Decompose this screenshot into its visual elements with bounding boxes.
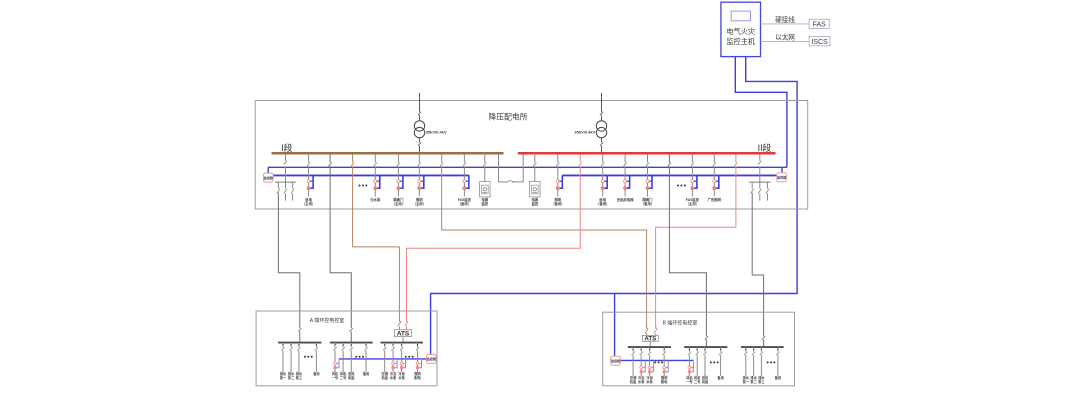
wire gray to B-room bus3 xyxy=(752,193,765,348)
wire red II段 to ATS-B xyxy=(654,155,738,336)
svg-text:泵三: 泵三 xyxy=(296,375,303,380)
svg-text:排水: 排水 xyxy=(296,371,303,376)
svg-text:FAS: FAS xyxy=(813,22,827,29)
svg-text:照明: 照明 xyxy=(414,371,421,376)
feeder FAS监控(主用) xyxy=(686,155,700,207)
svg-text:（主用）: （主用） xyxy=(686,201,699,206)
svg-text:泵三: 泵三 xyxy=(758,379,765,384)
svg-text:一号: 一号 xyxy=(332,375,339,380)
svg-text:机组: 机组 xyxy=(701,379,709,384)
svg-text:监控器: 监控器 xyxy=(264,175,274,180)
wire blue sensor loop right xyxy=(562,174,777,176)
svg-text:A 端环控电控室: A 端环控电控室 xyxy=(310,317,344,324)
bus A1 xyxy=(278,342,321,344)
feeder A1-3 排水 xyxy=(296,343,303,380)
bus A2 xyxy=(330,342,373,344)
svg-text:配电: 配电 xyxy=(414,375,421,380)
svg-text:35kV/0.4kV: 35kV/0.4kV xyxy=(426,129,447,134)
svg-text:备用: 备用 xyxy=(362,371,369,376)
wire host to substation sensor loop xyxy=(431,57,797,357)
svg-text:二号: 二号 xyxy=(340,375,347,380)
feeder B1-3 冷却 xyxy=(645,347,653,384)
svg-text:硬接线: 硬接线 xyxy=(775,15,795,24)
svg-text:电源: 电源 xyxy=(531,197,538,202)
bus A3 xyxy=(381,342,423,344)
dots A3 xyxy=(405,356,414,358)
svg-text:污水泵: 污水泵 xyxy=(370,197,381,202)
svg-text:无机房电梯: 无机房电梯 xyxy=(617,197,634,202)
svg-text:（备用）: （备用） xyxy=(641,201,654,206)
dots A1 xyxy=(304,356,313,358)
svg-text:冷冻: 冷冻 xyxy=(390,371,397,376)
svg-text:泵一: 泵一 xyxy=(280,375,287,380)
dots B1 xyxy=(654,361,663,363)
svg-text:备用: 备用 xyxy=(774,375,781,380)
svg-text:风机: 风机 xyxy=(694,375,701,380)
wire 以太网 to ISCS xyxy=(761,33,810,42)
svg-text:给电: 给电 xyxy=(599,197,606,202)
box ISCS xyxy=(809,37,830,46)
svg-text:（备用）: （备用） xyxy=(458,201,471,206)
wire blue sensor loop left xyxy=(273,174,469,176)
feeder A3-3 冷却 xyxy=(397,343,405,380)
bus I段 (brown) xyxy=(272,142,504,153)
room box B 端环控电控室 xyxy=(603,312,795,386)
svg-text:备用: 备用 xyxy=(716,375,723,380)
power monitor meter right 电源监控 xyxy=(530,152,541,206)
bus B3 xyxy=(741,346,784,348)
svg-text:隔离门: 隔离门 xyxy=(393,197,404,202)
fire monitor host U1 电气火灾监控主机 xyxy=(721,2,761,56)
power monitor meter left 电源监控 xyxy=(480,152,491,206)
svg-text:送风: 送风 xyxy=(347,371,355,376)
sensor module left 监控器 xyxy=(264,173,274,182)
svg-text:（主用）: （主用） xyxy=(392,201,405,206)
svg-text:（主用）: （主用） xyxy=(413,201,426,206)
svg-text:水泵: 水泵 xyxy=(637,379,645,384)
svg-text:一号: 一号 xyxy=(686,379,693,384)
svg-text:照明: 照明 xyxy=(554,197,561,202)
svg-text:35kV/0.4kV: 35kV/0.4kV xyxy=(574,129,595,134)
svg-text:B 端环控电控室: B 端环控电控室 xyxy=(663,319,698,326)
feeder 隔离门(主用) xyxy=(392,155,405,207)
feeder A3-2 冷冻 xyxy=(389,343,397,380)
bus B1 xyxy=(628,346,671,348)
svg-text:排水: 排水 xyxy=(743,375,750,380)
svg-text:风机: 风机 xyxy=(686,375,693,380)
svg-text:监控: 监控 xyxy=(481,201,488,206)
svg-text:空调: 空调 xyxy=(630,375,637,380)
sensor module right 监控器 xyxy=(777,173,787,182)
feeder B1-2 冷冻 xyxy=(637,347,645,384)
dots B2 xyxy=(710,361,719,363)
transformer T2 35kV/0.4kV xyxy=(574,93,606,152)
feeder I-1 three-phase outgoing xyxy=(275,155,296,201)
svg-text:排水: 排水 xyxy=(280,371,287,376)
svg-text:风机: 风机 xyxy=(332,371,339,376)
feeder 污水泵 xyxy=(370,155,381,203)
feeder A2-1 风机 xyxy=(332,343,339,380)
svg-text:I段: I段 xyxy=(281,142,292,153)
feeder 无机房电梯 xyxy=(617,155,634,203)
feeder II three-phase outgoing xyxy=(749,155,771,201)
feeder A1-2 排水 xyxy=(288,343,295,380)
feeder A1-1 排水 xyxy=(280,343,287,380)
svg-text:空调: 空调 xyxy=(382,371,389,376)
feeder 广告照明 xyxy=(708,155,722,203)
dots I段 xyxy=(359,185,368,187)
svg-text:泵二: 泵二 xyxy=(750,379,757,384)
feeder A2-2 风机 xyxy=(340,343,347,380)
svg-text:排水: 排水 xyxy=(288,371,295,376)
svg-text:给电: 给电 xyxy=(305,197,312,202)
feeder B2-2 风机 xyxy=(694,347,701,384)
svg-text:机组: 机组 xyxy=(629,379,637,384)
svg-text:冷却: 冷却 xyxy=(398,371,404,376)
svg-text:监控: 监控 xyxy=(531,201,538,206)
sensor module A 监控器 xyxy=(427,354,437,363)
bus tie switch xyxy=(499,155,524,183)
feeder 照明(备用) xyxy=(551,155,564,207)
feeder FAS监控(备用) xyxy=(458,155,472,207)
feeder A2-3 送风 xyxy=(347,343,355,380)
feeder A3-1 空调 xyxy=(381,343,389,380)
svg-text:备用: 备用 xyxy=(312,371,319,376)
substation box 降压配电所 xyxy=(255,101,808,210)
svg-text:ISCS: ISCS xyxy=(811,39,828,46)
svg-text:电源: 电源 xyxy=(481,197,488,202)
svg-text:广告照明: 广告照明 xyxy=(708,197,722,202)
svg-text:冷却: 冷却 xyxy=(646,375,652,380)
feeder A2-4 备用 xyxy=(362,343,369,376)
svg-text:排水: 排水 xyxy=(750,375,757,380)
svg-text:监控主机: 监控主机 xyxy=(726,37,756,46)
wire gray to A-room bus2 xyxy=(329,155,353,343)
svg-text:泵二: 泵二 xyxy=(288,375,295,380)
wire brown I段 to ATS-B xyxy=(440,155,648,336)
wire blue B sensor loop xyxy=(619,359,693,361)
svg-text:FAS监控: FAS监控 xyxy=(458,197,472,202)
svg-text:泵一: 泵一 xyxy=(743,379,750,384)
svg-text:二号: 二号 xyxy=(694,379,701,384)
feeder B2-3 送风 xyxy=(701,347,709,384)
svg-text:排水: 排水 xyxy=(758,375,765,380)
svg-text:监控器: 监控器 xyxy=(611,358,621,363)
svg-text:冷冻: 冷冻 xyxy=(638,375,645,380)
bus B2 xyxy=(684,346,727,348)
box FAS xyxy=(809,19,829,28)
feeder B2-4 备用 xyxy=(716,347,723,380)
dots II段 xyxy=(677,185,686,187)
svg-text:FAS监控: FAS监控 xyxy=(686,197,700,202)
svg-text:送风: 送风 xyxy=(701,375,709,380)
feeder B3-1 排水 xyxy=(743,347,750,384)
svg-text:机组: 机组 xyxy=(347,375,355,380)
feeder B2-1 风机 xyxy=(686,347,693,384)
feeder B3-4 备用 xyxy=(774,347,781,380)
svg-text:（备用）: （备用） xyxy=(551,201,564,206)
wire 硬接线 to FAS xyxy=(761,15,810,24)
feeder B1-4 照明 xyxy=(661,347,668,384)
svg-text:（备用）: （备用） xyxy=(596,201,609,206)
bus II段 (red) xyxy=(518,142,776,153)
feeder A3-4 照明 xyxy=(414,343,421,380)
wire brown I段 to ATS-A xyxy=(351,155,401,330)
feeder B1-1 空调 xyxy=(629,347,637,384)
svg-text:以太网: 以太网 xyxy=(775,33,795,42)
svg-text:电气火灾: 电气火灾 xyxy=(726,27,755,36)
dots A2 xyxy=(355,356,364,358)
feeder 隔离门(备用) xyxy=(641,155,654,207)
svg-text:配电: 配电 xyxy=(661,379,668,384)
svg-text:照明: 照明 xyxy=(416,197,423,202)
svg-text:降压配电所: 降压配电所 xyxy=(489,112,528,122)
svg-text:机组: 机组 xyxy=(381,375,389,380)
ATS A xyxy=(395,330,412,343)
feeder 给电(备用) xyxy=(596,155,609,207)
wire blue network top line xyxy=(268,167,787,173)
wire gray to A-room bus1 xyxy=(278,193,301,343)
wire blue A sensor loop xyxy=(339,358,427,360)
svg-text:监控器: 监控器 xyxy=(427,356,437,361)
feeder B3-2 排水 xyxy=(750,347,757,384)
dots B3 xyxy=(767,361,776,363)
svg-text:水泵: 水泵 xyxy=(397,375,405,380)
sensor module B 监控器 xyxy=(611,356,621,365)
transformer T1 35kV/0.4kV xyxy=(414,93,447,152)
svg-text:照明: 照明 xyxy=(661,375,668,380)
ATS B xyxy=(642,335,658,347)
feeder 照明(主用) xyxy=(413,155,426,207)
svg-text:风机: 风机 xyxy=(340,371,347,376)
feeder A1-4 备用 xyxy=(312,343,319,376)
svg-text:水泵: 水泵 xyxy=(389,375,397,380)
svg-text:II段: II段 xyxy=(758,142,772,153)
svg-text:监控器: 监控器 xyxy=(777,175,787,180)
wire red II段 to ATS-A xyxy=(405,155,582,330)
feeder 给电(主用) xyxy=(302,155,315,207)
wire host to blue network bus xyxy=(735,57,787,168)
svg-text:水泵: 水泵 xyxy=(645,379,653,384)
feeder B3-3 排水 xyxy=(758,347,765,384)
svg-text:隔离门: 隔离门 xyxy=(642,197,653,202)
wire gray to B-room bus2 xyxy=(668,155,708,348)
room box A 端环控电控室 xyxy=(256,311,437,386)
svg-text:（主用）: （主用） xyxy=(302,201,315,206)
